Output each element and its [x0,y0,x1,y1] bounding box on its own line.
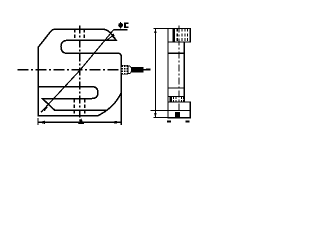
dimension A: left extension line [37,118,39,125]
side view bottom thread dashed columns [173,97,183,102]
label C [124,22,128,28]
label A [78,118,84,124]
vertical centerline front view [79,25,81,120]
side view top thread solid bar [172,29,175,43]
label phi symbol [118,23,123,28]
dimension A right arrowhead [115,121,122,124]
connector ferrule cap [128,66,132,74]
side view bottom boss [168,102,190,118]
front view outline: S-beam body [38,29,121,116]
cable connector knurled block [121,65,128,75]
side view middle body [168,42,184,102]
side view inner line y53 [168,52,184,54]
side view right foot mark [186,120,190,122]
side view left foot mark [167,120,171,122]
dimension B bottom extension [153,117,168,119]
side view top thread dashed columns [177,29,187,42]
dimension B top extension [153,28,168,30]
hidden line: top threaded hole left [74,29,76,40]
centerline end dash (thick) [146,69,151,71]
phi-C label leader underline [114,29,128,31]
solid arrowhead on leader [110,33,115,37]
side view vertical centerline [178,25,180,112]
arrow blob on diagonal lower end [43,106,48,111]
cable (solid) [132,67,144,73]
side view bottom inner line extending left [151,109,191,111]
dimension A: right extension line [120,92,122,125]
side view bottom thread solid bar [169,97,172,102]
open triangle marker on slot line [107,36,117,40]
dimension A left arrowhead [38,121,45,124]
dimension A line [38,121,121,123]
side view body outline: narrow middle with wide bosses [168,29,190,118]
side view top boss [168,29,190,43]
horizontal centerline front view [18,69,151,71]
dimension B bottom arrowhead [154,113,157,118]
side view line above bottom hatch [168,96,184,98]
hidden line: top threaded hole right [83,29,85,40]
hidden line: bottom threaded hole right [84,99,86,116]
side view black plug square [175,112,180,118]
side view inner line y88 [168,87,184,89]
dimension B line [154,29,156,118]
hidden line: bottom threaded hole left [73,99,75,116]
diagonal leader line [41,30,114,112]
dimension B top arrowhead [154,29,157,34]
